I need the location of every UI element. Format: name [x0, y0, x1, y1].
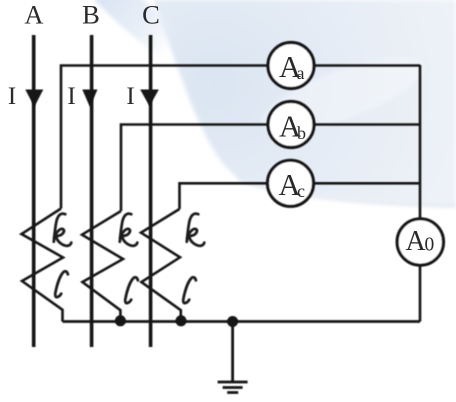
svg-text:c: c [297, 181, 305, 201]
svg-text:b: b [297, 123, 306, 143]
svg-text:I: I [8, 83, 16, 110]
svg-text:A: A [406, 226, 427, 257]
svg-text:A: A [24, 0, 43, 30]
svg-text:C: C [142, 0, 160, 30]
svg-text:I: I [126, 83, 134, 110]
svg-text:B: B [82, 0, 100, 30]
svg-text:0: 0 [425, 235, 435, 256]
svg-text:a: a [297, 63, 305, 83]
svg-text:I: I [67, 83, 75, 110]
